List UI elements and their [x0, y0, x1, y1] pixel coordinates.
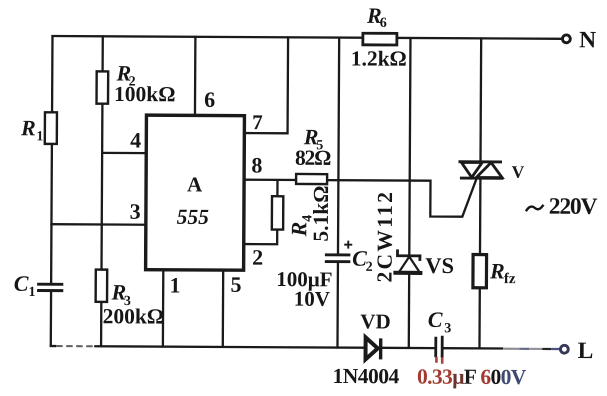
svg-text:82Ω: 82Ω	[295, 146, 331, 170]
svg-text:3: 3	[444, 321, 451, 336]
svg-text:555: 555	[177, 205, 210, 229]
svg-text:100kΩ: 100kΩ	[114, 82, 176, 106]
svg-text:1: 1	[169, 272, 180, 297]
svg-text:5.1kΩ: 5.1kΩ	[309, 185, 333, 241]
svg-text:R: R	[489, 258, 505, 283]
svg-text:2CW112: 2CW112	[373, 190, 398, 283]
svg-text:1: 1	[36, 129, 43, 144]
svg-text:8: 8	[251, 153, 262, 178]
svg-text:1: 1	[28, 285, 35, 300]
svg-text:1.2kΩ: 1.2kΩ	[351, 46, 407, 70]
svg-text:7: 7	[252, 110, 263, 134]
svg-text:VS: VS	[425, 253, 454, 278]
svg-text:6: 6	[380, 16, 387, 31]
svg-text:A: A	[187, 172, 203, 196]
svg-text:C: C	[428, 307, 443, 332]
svg-text:V: V	[512, 162, 525, 182]
svg-text:fz: fz	[504, 271, 516, 287]
svg-text:L: L	[578, 338, 594, 364]
svg-text:3: 3	[130, 199, 141, 224]
svg-text:2: 2	[252, 245, 263, 270]
svg-text:4: 4	[130, 127, 141, 152]
svg-text:200kΩ: 200kΩ	[103, 304, 165, 328]
svg-text:C: C	[14, 271, 29, 296]
svg-text:1N4004: 1N4004	[332, 364, 399, 388]
svg-text:220V: 220V	[549, 194, 598, 220]
svg-text:R: R	[20, 115, 36, 140]
svg-text:5: 5	[230, 272, 241, 297]
svg-text:6: 6	[204, 87, 215, 112]
svg-text:0.33μF 600V: 0.33μF 600V	[417, 365, 527, 390]
svg-text:VD: VD	[360, 309, 390, 333]
svg-text:N: N	[579, 27, 596, 53]
svg-text:10V: 10V	[294, 287, 330, 311]
svg-text:2: 2	[366, 260, 373, 275]
